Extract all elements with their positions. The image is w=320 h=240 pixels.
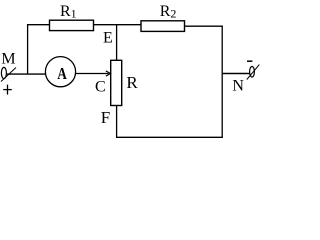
wire: stub to terminal N: [222, 73, 250, 75]
resistor R2: [141, 21, 185, 32]
wire: top-left vertical branch: [27, 24, 29, 74]
svg-text:R: R: [126, 73, 138, 92]
wire: top segment from R1 to R2 through node E: [93, 24, 141, 26]
wire: from terminal M to ammeter: [7, 73, 46, 75]
svg-text:R2: R2: [160, 3, 177, 20]
resistor R1: [50, 20, 94, 30]
svg-text:M: M: [1, 51, 15, 68]
svg-text:A: A: [57, 64, 67, 83]
wire: bottom segment: [116, 136, 223, 138]
svg-text:C: C: [95, 79, 106, 96]
wire: top segment from left corner to R1: [27, 24, 50, 26]
svg-text:R1: R1: [60, 3, 77, 20]
wire: from ammeter to node C with arrow: [76, 71, 111, 76]
resistor R (vertical box): [111, 60, 122, 105]
label minus sign of terminal N: [247, 60, 252, 62]
terminal M symbol (slashed oval): [1, 67, 16, 81]
svg-text:N: N: [232, 78, 244, 95]
terminal N symbol (slashed oval): [247, 65, 259, 80]
label plus sign of terminal M: [3, 85, 12, 95]
wire: vertical from resistor R bottom (node F) to bottom wire: [116, 106, 118, 138]
svg-text:E: E: [103, 29, 113, 46]
ammeter U1 circle: [45, 57, 75, 87]
wire: right vertical branch: [221, 26, 223, 138]
wire: top segment from R2 to right corner: [184, 25, 223, 27]
wire: vertical from node E down to resistor R: [116, 25, 118, 61]
svg-text:F: F: [101, 108, 110, 127]
